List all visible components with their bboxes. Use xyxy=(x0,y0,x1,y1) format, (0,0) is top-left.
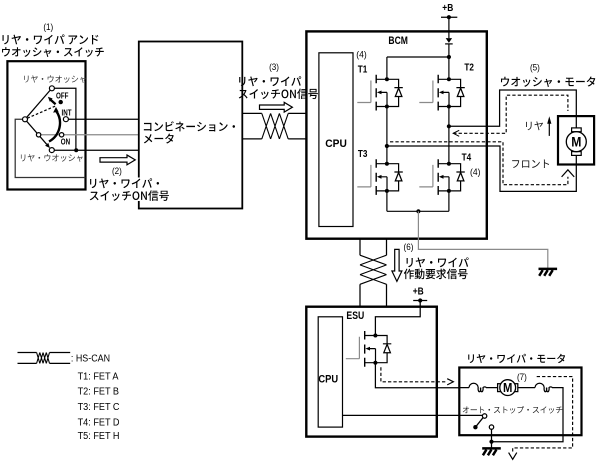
wire +B into BCM xyxy=(448,17,450,57)
switch lever upper arm xyxy=(25,90,50,119)
svg-text:T3: T3 xyxy=(358,147,368,159)
+B supply node (BCM) xyxy=(441,16,457,18)
washer motor M1 xyxy=(572,128,582,132)
auto-stop switch lower contact xyxy=(489,425,493,429)
rear wiper motor box xyxy=(459,368,581,436)
label rear washer (top) xyxy=(24,75,86,83)
label rear wiper request line2 xyxy=(404,269,468,280)
washer motor box xyxy=(558,116,594,164)
signal arrow (6) rear wiper request xyxy=(392,249,402,281)
svg-text:(4): (4) xyxy=(356,49,367,59)
wire switch washer contacts link xyxy=(54,88,76,150)
flow path front mode (dashed) xyxy=(390,142,568,185)
signal arrow (2) rear wiper switch ON xyxy=(100,155,135,165)
flow path rear mode (dashed) xyxy=(453,95,568,133)
svg-text:T3: FET C: T3: FET C xyxy=(78,401,120,413)
switch travel arrow short (to washer) xyxy=(51,100,56,104)
wire ESU CPU to auto-stop switch xyxy=(343,414,483,416)
label rear washer (bottom) xyxy=(21,154,83,162)
legend HS-CAN symbol xyxy=(18,353,71,364)
svg-text:(3): (3) xyxy=(269,61,279,72)
node top rail junction xyxy=(447,55,451,59)
switch lever moving contact xyxy=(36,133,40,137)
wiper motor M2 xyxy=(498,384,503,392)
CPU box (ESU) xyxy=(318,317,342,427)
wire washer motor front feed xyxy=(387,146,576,191)
wire INT signal to meter xyxy=(68,118,138,120)
switch SW1 box xyxy=(7,61,85,189)
wire BCM ground (gray) xyxy=(418,211,547,269)
svg-text:CPU: CPU xyxy=(325,138,347,150)
switch INT contact xyxy=(63,117,68,122)
label washer motor xyxy=(501,77,595,87)
wire washer signal to meter xyxy=(54,149,139,151)
signal arrow (3) rear wiper switch ON xyxy=(260,102,293,112)
transistor T5 xyxy=(346,331,392,367)
wire switch common return xyxy=(15,119,85,177)
svg-text:: HS-CAN: : HS-CAN xyxy=(71,353,110,365)
svg-text:T4: FET D: T4: FET D xyxy=(78,417,120,429)
auto-stop switch upper contact xyxy=(482,414,486,418)
transistor T3 xyxy=(357,159,403,195)
switch lever lower arm with arrowhead xyxy=(25,119,47,144)
svg-text:M: M xyxy=(503,380,512,395)
flow arrowhead down to ground xyxy=(509,453,517,460)
wire +B into ESU to T5 xyxy=(375,301,420,336)
svg-text:T4: T4 xyxy=(462,151,472,163)
switch top washer contact xyxy=(49,86,54,91)
label rear direction xyxy=(526,121,543,130)
svg-text:(7): (7) xyxy=(517,371,527,382)
label rear wiper switch ON signal (3) line2 xyxy=(239,89,318,100)
svg-text:T5: FET H: T5: FET H xyxy=(78,430,120,442)
node right leg midpoint xyxy=(447,124,451,128)
HS-CAN bus meter to BCM (twisted pair) xyxy=(242,113,306,138)
svg-text:ON: ON xyxy=(61,138,70,147)
label rear wiper and washer switch line1 xyxy=(2,34,98,44)
auto-stop switch lever xyxy=(476,418,483,427)
svg-text:OFF: OFF xyxy=(56,92,69,101)
wire ON signal to meter xyxy=(39,134,139,136)
arrow rear direction xyxy=(548,123,550,136)
label rear wiper motor xyxy=(468,354,565,363)
node bottom rail center xyxy=(416,209,420,213)
switch travel arc (wiper positions) xyxy=(49,111,60,142)
svg-text:M: M xyxy=(571,134,581,150)
+B supply node (ESU) xyxy=(413,300,427,302)
svg-text:(4): (4) xyxy=(470,167,481,177)
flow arrowhead up into washer motor xyxy=(562,170,575,177)
label rear wiper switch ON signal (3) line1 xyxy=(239,76,308,86)
auto-stop switch pivot dot xyxy=(473,425,477,429)
ground (BCM output) xyxy=(539,269,558,276)
wire H-bridge bottom rail xyxy=(387,210,449,212)
switch pivot contact xyxy=(23,117,28,122)
diode D1 (reverse protection) xyxy=(446,38,452,43)
combination meter box xyxy=(139,42,243,209)
svg-text:T1: FET A: T1: FET A xyxy=(78,371,119,383)
wire washer motor internal xyxy=(575,116,577,164)
transistor T1 xyxy=(357,75,403,111)
wire left leg T1-T3 xyxy=(386,57,388,211)
svg-text:T2: T2 xyxy=(464,60,474,72)
label rear wiper switch ON signal line1 xyxy=(90,178,159,188)
transistor T4 xyxy=(419,159,465,195)
wire right leg T2-T4 xyxy=(448,57,450,211)
text background over BCM border xyxy=(304,75,316,100)
svg-text:+B: +B xyxy=(442,2,453,13)
switch OFF contact dot xyxy=(59,100,63,104)
svg-text:(2): (2) xyxy=(112,165,122,176)
svg-text:BCM: BCM xyxy=(388,35,408,47)
wire wiper motor circuit with noise coils xyxy=(459,383,563,441)
wire washer motor rear feed xyxy=(449,90,576,128)
svg-text:CPU: CPU xyxy=(318,374,338,386)
ESU box xyxy=(306,307,437,437)
svg-text:(1): (1) xyxy=(43,21,53,32)
label rear wiper switch ON signal line2 xyxy=(90,190,169,201)
HS-CAN bus BCM to ESU (twisted pair) xyxy=(360,239,387,307)
wire T5 source output to wiper motor xyxy=(375,363,459,388)
node wiper motor return junction xyxy=(489,440,493,444)
label rear wiper request line1 xyxy=(407,257,469,267)
wire lower contact to ground junction xyxy=(491,429,493,448)
switch bottom washer contact xyxy=(49,148,54,153)
text background over meter border xyxy=(137,178,169,202)
svg-text:+B: +B xyxy=(413,286,424,297)
flow path ESU to wiper motor (dashed) xyxy=(381,367,447,382)
label combination meter line2 xyxy=(144,134,174,144)
flow path wiper motor to ground (dashed) xyxy=(513,377,573,453)
svg-text:(6): (6) xyxy=(404,242,414,253)
svg-text:T2: FET B: T2: FET B xyxy=(78,386,120,398)
switch ON contact xyxy=(59,133,63,137)
svg-text:T1: T1 xyxy=(358,63,368,75)
switch lever OFF position (dashed) xyxy=(27,106,55,118)
ground (wiper motor) xyxy=(482,448,501,455)
label auto stop switch xyxy=(463,406,563,414)
label rear wiper and washer switch line2 xyxy=(2,47,104,57)
node left leg midpoint xyxy=(385,144,389,148)
svg-text:(5): (5) xyxy=(530,62,540,73)
label combination meter line1 xyxy=(144,121,235,131)
transistor T2 xyxy=(419,75,465,111)
BCM box xyxy=(306,31,486,238)
label front direction xyxy=(512,159,549,168)
CPU box (BCM) xyxy=(319,53,353,227)
node washer output junction xyxy=(74,148,78,152)
wire H-bridge top rail xyxy=(387,56,449,58)
svg-text:ESU: ESU xyxy=(346,310,364,322)
